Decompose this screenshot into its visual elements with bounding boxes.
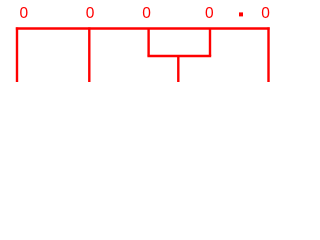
svg-text:0: 0 [205,5,214,22]
svg-text:0: 0 [86,5,95,22]
svg-text:0: 0 [19,5,28,22]
svg-text:0: 0 [261,5,270,22]
svg-text:0: 0 [142,5,151,22]
